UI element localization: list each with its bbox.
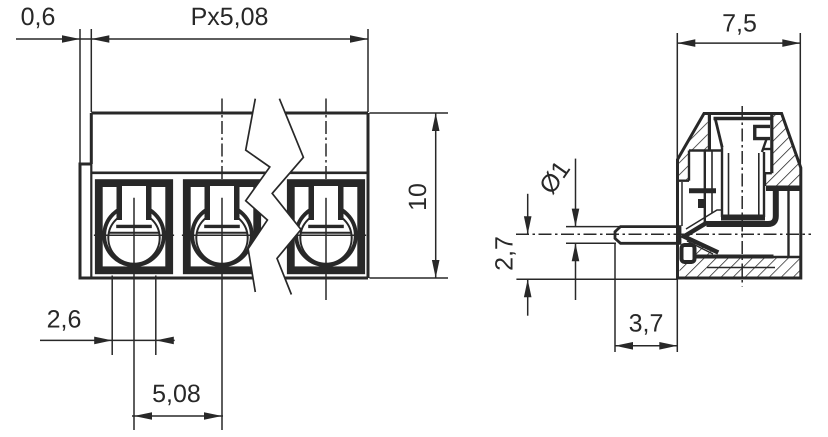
svg-text:5,08: 5,08 <box>152 380 201 408</box>
svg-text:2,7: 2,7 <box>491 236 519 271</box>
svg-text:2,6: 2,6 <box>47 306 82 334</box>
svg-text:Px5,08: Px5,08 <box>191 3 269 31</box>
svg-text:10: 10 <box>404 183 432 211</box>
svg-text:0,6: 0,6 <box>21 3 56 31</box>
svg-text:3,7: 3,7 <box>629 310 664 338</box>
svg-text:7,5: 7,5 <box>722 10 757 38</box>
